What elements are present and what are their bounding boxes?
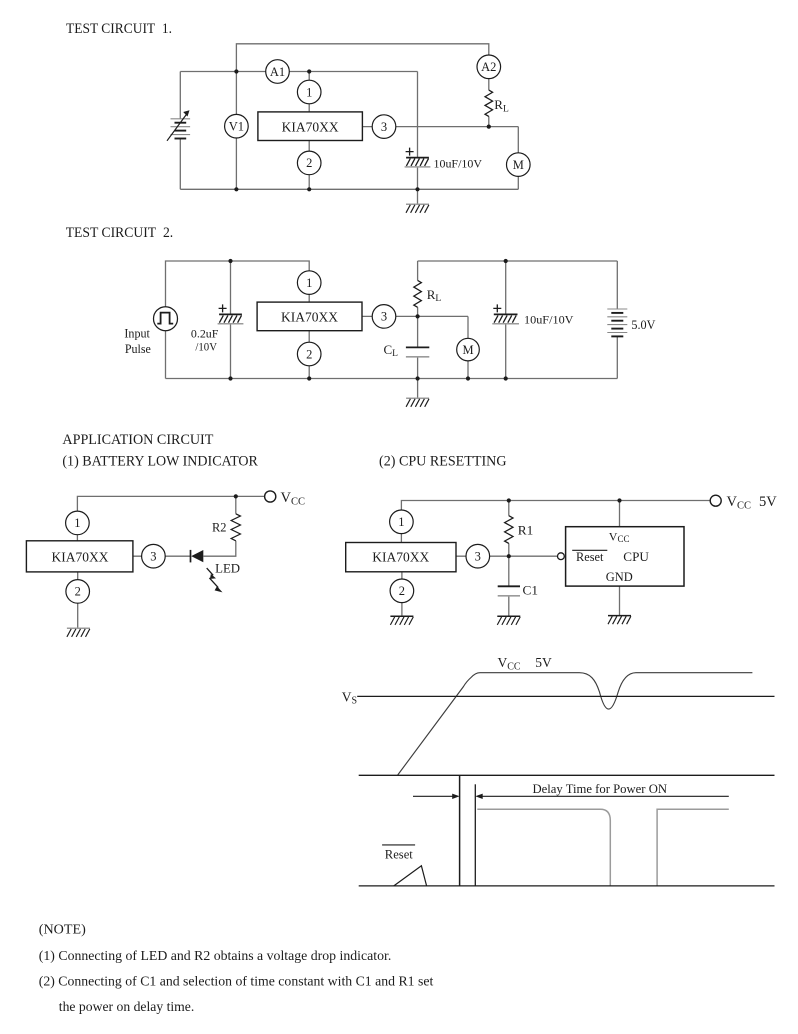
pin 1 app1 <box>66 511 90 535</box>
wire input source bottom <box>165 331 167 379</box>
svg-text:TEST CIRCUIT 1.: TEST CIRCUIT 1. <box>66 21 172 37</box>
svg-text:M: M <box>513 158 524 172</box>
wire V1 branch <box>235 72 237 190</box>
waveform reset sawtooth <box>394 866 427 886</box>
op-amp U2 KIA70XX box circuit2 <box>257 302 362 331</box>
svg-text:KIA70XX: KIA70XX <box>282 120 339 135</box>
svg-text:0.2uF: 0.2uF <box>191 327 219 341</box>
svg-text:A1: A1 <box>270 65 285 79</box>
wire battery branch <box>179 72 181 190</box>
marker line t1 <box>474 784 476 886</box>
wire supply top rail <box>418 260 618 262</box>
battery 5.0V <box>607 309 627 336</box>
battery B1 arrow <box>167 110 190 141</box>
waveform VCC curve <box>398 673 753 775</box>
wire vcc rail app2 <box>401 501 709 511</box>
wire RL branch circuit2 <box>417 261 419 316</box>
op-amp U4 KIA70XX box app2 <box>346 543 456 572</box>
pin 3 app1 <box>142 544 166 568</box>
wire pin2 ground app2 <box>401 572 403 617</box>
svg-text:3: 3 <box>381 310 387 324</box>
pin 3 circuit1 <box>372 115 396 139</box>
node dot app1 <box>234 494 238 498</box>
wire pin3 rail circuit2 <box>362 315 468 317</box>
svg-text:Reset: Reset <box>385 848 414 862</box>
wire vcc rail app1 <box>77 496 264 511</box>
pin 1 circuit1 <box>297 80 321 104</box>
resistor RL circuit1 <box>485 90 493 116</box>
pin 2 circuit1 <box>297 151 321 175</box>
pin 3 app2 <box>466 544 490 568</box>
svg-text:5V: 5V <box>535 655 552 670</box>
ground app2 cpu <box>608 616 631 625</box>
wire cpu vcc branch <box>619 501 621 527</box>
line VS level <box>357 695 774 697</box>
waveform reset pulse 1 <box>477 809 610 886</box>
svg-text:(1) Connecting of LED and R2 o: (1) Connecting of LED and R2 obtains a v… <box>39 948 392 963</box>
svg-text:V1: V1 <box>229 120 244 134</box>
pin 2 app1 <box>66 580 90 604</box>
wire pin1 <box>308 72 310 113</box>
meter M circuit2 <box>457 338 480 361</box>
svg-text:CL: CL <box>384 342 399 359</box>
pin 1 circuit2 <box>297 271 321 295</box>
pin 1 app2 <box>390 510 414 534</box>
op-amp U1 KIA70XX box <box>258 112 363 141</box>
wire M branch circuit2 <box>467 316 469 378</box>
svg-text:2: 2 <box>306 156 312 170</box>
svg-text:Reset: Reset <box>576 550 604 564</box>
capacitor 0.2uF <box>218 304 244 323</box>
wire pin3 to reset <box>456 555 558 557</box>
wire R1 branch <box>508 501 510 587</box>
svg-text:C1: C1 <box>523 583 539 597</box>
svg-text:VCC: VCC <box>498 655 521 672</box>
svg-text:1: 1 <box>74 516 80 530</box>
CPU box <box>566 527 684 586</box>
wire 0.2uF branch <box>230 261 232 379</box>
ground circuit1 <box>406 204 429 213</box>
battery B1 variable <box>171 119 191 139</box>
svg-text:10uF/10V: 10uF/10V <box>434 156 483 170</box>
svg-text:LED: LED <box>215 562 240 576</box>
label Reset timing with overline <box>382 844 415 846</box>
capacitor C1 <box>498 586 520 596</box>
wire pin1 app1 <box>76 535 78 541</box>
svg-text:A2: A2 <box>481 60 496 74</box>
arrow left delay <box>413 794 460 799</box>
wire 10uF branch circuit2 <box>505 261 507 379</box>
wire cpu gnd <box>619 586 621 616</box>
wire M branch <box>517 127 519 190</box>
svg-text:Input: Input <box>124 327 150 341</box>
pin 2 app2 <box>390 579 414 603</box>
resistor R2 <box>231 514 240 541</box>
pulse source symbol <box>154 307 178 331</box>
node junction dots circuit1 <box>234 69 238 73</box>
ground app2 C1 <box>497 616 520 625</box>
ammeter A2 <box>477 55 501 79</box>
ammeter A1 <box>266 60 290 84</box>
wire pin3 to RL node <box>362 126 518 128</box>
wire R2 branch app1 <box>203 496 235 556</box>
wire ground stub circuit2 <box>417 379 419 399</box>
resistor R1 <box>505 516 513 544</box>
svg-text:/10V: /10V <box>195 340 217 354</box>
wire input top rail <box>166 261 310 307</box>
svg-text:(NOTE): (NOTE) <box>39 922 86 937</box>
axis bottom <box>359 885 775 887</box>
wire pin1 app2 <box>400 533 402 543</box>
ground app1 <box>67 628 90 637</box>
pin 2 circuit2 <box>297 342 321 366</box>
svg-text:5V: 5V <box>759 494 777 510</box>
svg-text:2: 2 <box>399 584 405 598</box>
marker line t0 <box>459 775 461 886</box>
wire C1 to ground <box>508 596 510 617</box>
axis middle <box>359 774 775 776</box>
svg-text:1: 1 <box>306 85 312 99</box>
svg-text:the power on delay time.: the power on delay time. <box>59 999 195 1014</box>
svg-text:2: 2 <box>306 347 312 361</box>
waveform reset pulse 2 <box>657 809 729 886</box>
svg-text:KIA70XX: KIA70XX <box>372 550 429 565</box>
svg-text:5.0V: 5.0V <box>631 317 656 332</box>
wire pin2 circuit2 <box>308 331 310 379</box>
svg-text:KIA70XX: KIA70XX <box>52 550 109 565</box>
svg-text:CPU: CPU <box>623 550 649 564</box>
wire capacitor branch <box>417 72 419 205</box>
ground circuit2 <box>406 398 429 407</box>
LED emission arrows <box>207 568 223 592</box>
resistor RL circuit2 <box>414 280 422 307</box>
svg-text:R2: R2 <box>212 521 227 535</box>
svg-text:Pulse: Pulse <box>125 342 151 356</box>
svg-text:3: 3 <box>381 120 387 134</box>
svg-text:APPLICATION CIRCUIT: APPLICATION CIRCUIT <box>62 432 213 448</box>
wire bottom rail <box>180 188 518 190</box>
node dots app2 <box>507 498 511 502</box>
svg-text:KIA70XX: KIA70XX <box>281 309 338 324</box>
wire pin2 ground app1 <box>77 572 79 628</box>
inverter bubble reset <box>558 553 565 560</box>
svg-text:(2) Connecting of C1 and selec: (2) Connecting of C1 and selection of ti… <box>39 974 434 989</box>
svg-text:GND: GND <box>606 570 633 584</box>
svg-text:VS: VS <box>342 689 357 706</box>
capacitor C 10uF/10V circuit1 <box>405 148 431 167</box>
label Reset with overline <box>572 549 607 551</box>
svg-text:(2) CPU RESETTING: (2) CPU RESETTING <box>379 454 507 470</box>
wire pin2 <box>308 141 310 190</box>
wire pin3 to LED <box>133 555 191 557</box>
wire top loop V1-A2 <box>236 44 488 72</box>
op-amp U3 KIA70XX box app1 <box>26 541 132 572</box>
pin 3 circuit2 <box>372 305 396 329</box>
svg-text:TEST CIRCUIT 2.: TEST CIRCUIT 2. <box>66 225 174 241</box>
svg-text:3: 3 <box>150 550 156 564</box>
svg-text:3: 3 <box>475 550 481 564</box>
svg-text:1: 1 <box>306 276 312 290</box>
svg-text:VCC: VCC <box>281 490 306 508</box>
wire A1 rail <box>180 71 417 73</box>
voltmeter V1 <box>225 114 249 138</box>
wire CL branch <box>417 316 419 378</box>
svg-text:2: 2 <box>75 585 81 599</box>
wire battery 5V branch <box>616 261 618 379</box>
arrow right delay <box>475 794 729 799</box>
wire bottom rail circuit2 <box>166 378 618 380</box>
svg-text:10uF/10V: 10uF/10V <box>524 313 574 327</box>
svg-text:RL: RL <box>494 97 509 114</box>
terminal VCC app2 <box>710 495 721 506</box>
svg-text:(1) BATTERY LOW INDICATOR: (1) BATTERY LOW INDICATOR <box>62 454 258 470</box>
svg-text:M: M <box>462 343 473 357</box>
svg-text:RL: RL <box>427 287 442 304</box>
svg-text:Delay Time for Power ON: Delay Time for Power ON <box>533 781 668 796</box>
diode LED <box>191 550 204 563</box>
capacitor 10uF/10V circuit2 <box>492 304 519 323</box>
terminal VCC app1 <box>265 491 276 502</box>
node junction dots circuit2 <box>228 259 232 263</box>
ground app2 pin2 <box>390 616 413 625</box>
svg-text:1: 1 <box>398 515 404 529</box>
svg-text:VCC: VCC <box>727 494 752 512</box>
svg-text:R1: R1 <box>518 524 534 538</box>
meter M circuit1 <box>507 153 531 177</box>
wire A2-RL branch <box>488 55 490 127</box>
capacitor CL <box>406 347 429 356</box>
